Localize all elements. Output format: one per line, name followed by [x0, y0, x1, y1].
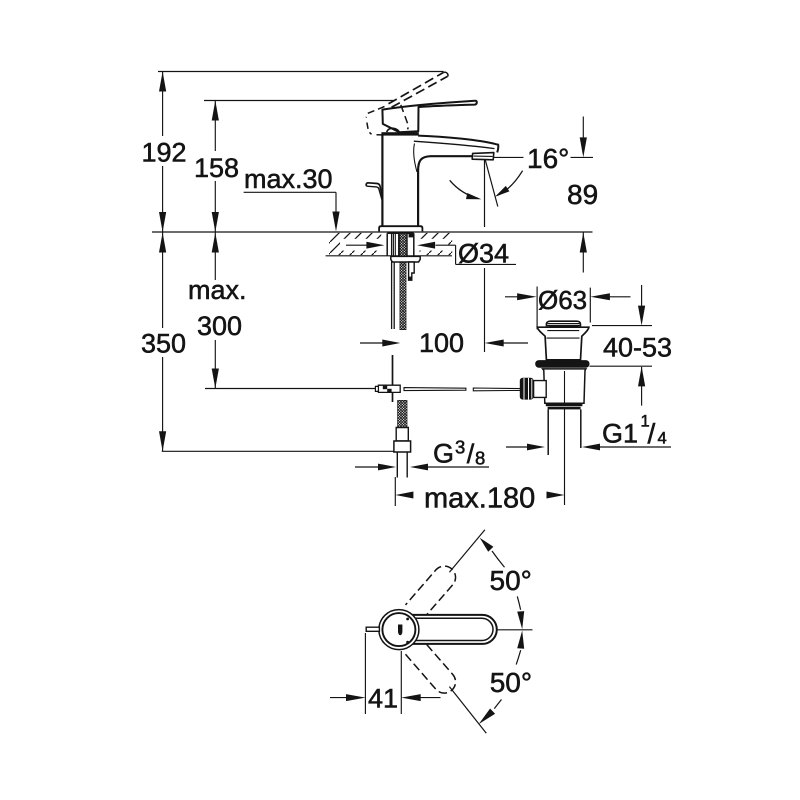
svg-text:Ø34: Ø34	[458, 239, 509, 269]
svg-text:3: 3	[455, 437, 465, 458]
svg-text:350: 350	[141, 329, 186, 359]
svg-text:G1: G1	[602, 419, 638, 449]
svg-text:192: 192	[142, 138, 187, 168]
svg-text:40-53: 40-53	[603, 333, 672, 363]
svg-text:/: /	[648, 418, 656, 449]
svg-text:16°: 16°	[527, 143, 569, 174]
svg-text:max.180: max.180	[424, 483, 535, 515]
svg-text:8: 8	[475, 448, 485, 469]
svg-text:100: 100	[419, 328, 464, 358]
svg-text:max.30: max.30	[244, 164, 333, 194]
svg-text:max.: max.	[188, 275, 247, 305]
svg-text:50°: 50°	[490, 667, 532, 698]
svg-text:4: 4	[658, 430, 667, 448]
svg-text:300: 300	[197, 311, 242, 341]
svg-text:41: 41	[368, 684, 398, 714]
svg-text:89: 89	[567, 179, 598, 210]
svg-text:G: G	[433, 439, 454, 469]
svg-text:50°: 50°	[490, 565, 532, 596]
svg-text:/: /	[467, 439, 475, 469]
svg-text:Ø63: Ø63	[538, 285, 587, 315]
svg-text:158: 158	[194, 153, 239, 183]
